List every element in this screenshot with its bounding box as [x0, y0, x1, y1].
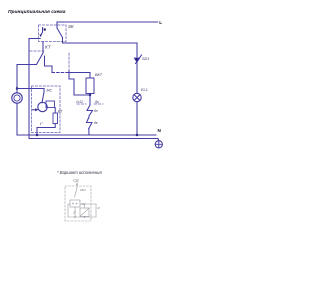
heater resistor top lead — [54, 108, 56, 114]
contact KM1 blade — [75, 188, 78, 197]
svg-text:L: L — [159, 20, 162, 25]
svg-text:дн: дн — [94, 109, 98, 113]
electrode 2 zigzag — [87, 117, 93, 129]
wire KT bottom horizontal — [17, 64, 37, 66]
resistor BKT bottom lead — [89, 94, 91, 96]
wire heater top stub — [84, 204, 86, 208]
wire SD1 to lamp — [136, 63, 138, 94]
svg-text:SD1: SD1 — [142, 57, 149, 61]
svg-text:EL1: EL1 — [141, 88, 148, 92]
thermostat dial circle — [38, 102, 47, 111]
svg-text:СД: СД — [73, 178, 79, 183]
wire second rail — [63, 42, 138, 44]
heat influence arrow — [33, 109, 37, 111]
motor M lower lead to N rail — [16, 103, 18, 135]
ground PE cross — [155, 141, 162, 148]
switch SK linkage dot — [44, 28, 46, 30]
wire to BKT resistor — [66, 73, 90, 79]
svg-text:ВКТ: ВКТ — [95, 73, 103, 77]
motor M inner circle — [14, 95, 20, 101]
wire left bus vertical — [28, 39, 30, 139]
junction dot under BKT — [89, 94, 91, 96]
wire L rail top — [57, 21, 158, 23]
relay KT enclosure (dashed box) — [32, 86, 61, 133]
motor M outer circle — [12, 93, 22, 103]
wire from SK left pole going left — [29, 38, 40, 40]
dashed wire to BKT — [52, 72, 66, 74]
svg-text:t°: t° — [40, 121, 43, 126]
electrode 1 zigzag — [87, 105, 93, 116]
wire block left leg — [68, 204, 70, 217]
wire block to bus — [74, 207, 76, 217]
linkage dashed vertical at 69 — [68, 53, 70, 71]
wire branch down to motor — [16, 65, 18, 89]
junction dot at N rail — [136, 134, 138, 136]
switch SK left pole arrow tip — [39, 34, 41, 37]
junction dot bus — [74, 216, 76, 218]
ground PE circle — [155, 141, 162, 148]
heater resistor bottom lead — [37, 124, 55, 136]
contact KT fixed side step — [45, 56, 53, 73]
wire to MC contact — [17, 88, 44, 90]
wire heater top feed — [80, 203, 96, 205]
contact KM1 terminal — [76, 184, 78, 188]
svg-text:1х12: 1х12 — [76, 100, 83, 104]
wire PE rail — [29, 138, 158, 140]
switch SK left pole blade — [41, 32, 43, 36]
svg-text:* Вариант исполнения: * Вариант исполнения — [57, 170, 102, 175]
lamp EL1 lower lead — [136, 102, 138, 135]
junction tick at linkage — [68, 71, 70, 75]
diode SD1 symbol — [134, 58, 140, 62]
terminal block dots — [72, 203, 74, 205]
switch SK left pole contact — [42, 28, 44, 33]
svg-text:дв: дв — [94, 121, 98, 125]
junction dot bus right — [84, 216, 86, 218]
heater element diagonal — [80, 208, 89, 217]
electrode column upper lead — [89, 95, 91, 105]
junction dot left — [16, 87, 18, 89]
contact MC terminal — [43, 89, 45, 93]
svg-text:др: др — [95, 100, 99, 104]
contact MC blade — [42, 92, 44, 103]
svg-text:МС: МС — [47, 89, 53, 93]
resistor BKT body — [86, 78, 94, 94]
wire right return loop — [95, 204, 97, 217]
contact KT top terminal — [42, 42, 44, 54]
thermostat coupling box — [46, 101, 55, 108]
switch SK right pole wire — [56, 22, 58, 28]
contact KT blade — [37, 53, 44, 65]
sensor SD enclosure (dashed box) — [65, 186, 91, 221]
junction dot heater return — [36, 134, 38, 136]
heat influence arrowhead — [35, 108, 38, 111]
contact KM1 arrow tip — [76, 183, 78, 185]
bypass contact loop wire — [69, 75, 90, 96]
svg-text:КМ1: КМ1 — [80, 188, 86, 192]
heater resistor body — [53, 113, 58, 124]
electrode column lower lead — [88, 129, 90, 136]
diode SD1 slash — [136, 55, 142, 64]
svg-text:Принципиальная схема: Принципиальная схема — [8, 9, 66, 15]
motor M upper lead — [16, 89, 18, 93]
water level dashed line — [77, 103, 103, 105]
wire N rail — [17, 134, 156, 136]
switch SK right pole blade — [57, 28, 63, 38]
terminal block body — [70, 200, 80, 207]
heater element body — [80, 208, 89, 217]
wire down to SD1 — [136, 43, 138, 57]
wire heater bottom stub — [84, 216, 86, 219]
ground PE lead — [157, 139, 160, 141]
wire bottom bus — [68, 216, 96, 218]
contact KT linkage dashed — [30, 50, 44, 52]
lamp EL1 circle — [133, 93, 141, 101]
switch SK right pole lower terminal — [62, 38, 64, 44]
lamp EL1 cross — [134, 95, 140, 101]
switch SK enclosure (dashed box) — [39, 25, 67, 42]
